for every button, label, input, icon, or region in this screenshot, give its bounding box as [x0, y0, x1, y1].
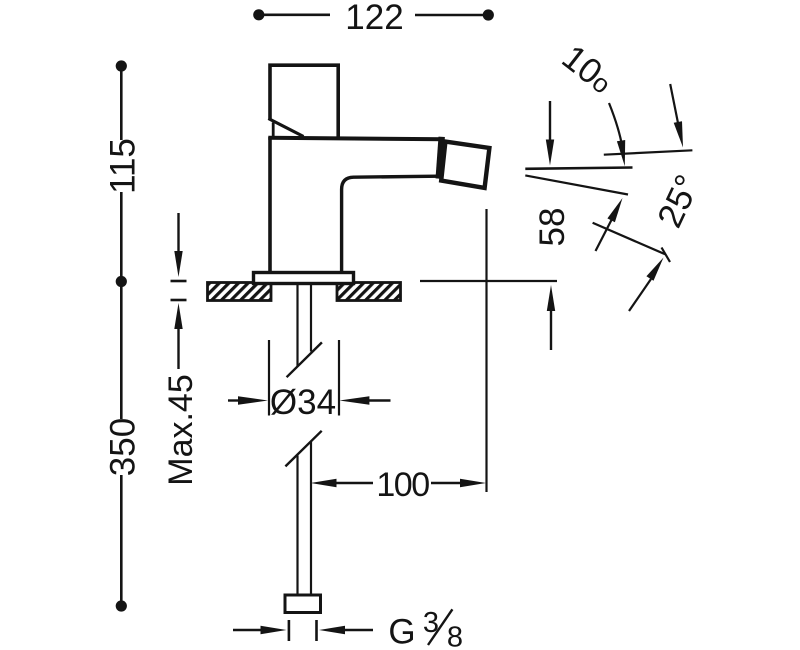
svg-text:25°: 25° — [650, 169, 708, 233]
dimension 58: top arrowhead — [546, 140, 554, 166]
dimension 122 top: right dot — [483, 9, 494, 20]
svg-text:10o: 10o — [555, 38, 621, 102]
extension line vertical at spout outlet — [485, 209, 487, 492]
supply pipe upper right line — [310, 284, 312, 352]
dimension D34: left line — [228, 399, 240, 401]
25 degree arrow F head — [646, 258, 663, 281]
dimension 58: bottom arrowhead — [547, 285, 555, 311]
dimension Max.45: bottom arrow line — [177, 328, 179, 369]
pipe break slash 2 — [285, 431, 321, 467]
dimension 115 top dot — [116, 60, 127, 71]
dimension D34: right arrowhead — [339, 396, 369, 404]
faucet body left edge — [268, 137, 272, 273]
dimension 58: top arrow line — [549, 101, 551, 142]
dimension 115/350 middle dot — [116, 276, 127, 287]
countertop hatch right block — [337, 283, 401, 301]
faucet base flange — [254, 273, 354, 284]
svg-text:58: 58 — [533, 208, 572, 247]
dimension 115/350 vertical line segment 1 — [120, 66, 123, 140]
25 degree arrow F line — [629, 279, 651, 311]
svg-text:350: 350 — [104, 418, 143, 476]
faucet handle square — [270, 65, 338, 137]
supply pipe upper left line — [296, 284, 298, 367]
arrow onto line C: arrowhead — [674, 121, 683, 147]
dimension G3/8: left line — [233, 629, 262, 631]
25 degree reference line D — [593, 223, 666, 255]
dimension 100: left line — [335, 482, 373, 484]
svg-text:Max.45: Max.45 — [162, 374, 200, 486]
arrow onto line C: line — [670, 84, 678, 123]
dimension G3/8: right tick — [315, 620, 318, 641]
pipe end connector box — [285, 595, 321, 613]
dimension Max.45: bottom tick — [171, 299, 187, 302]
svg-text:G: G — [388, 612, 415, 650]
dimension Max.45: top arrow line — [177, 213, 179, 252]
dimension 100: right arrowhead — [460, 479, 486, 487]
pipe break slash 1 — [287, 342, 322, 377]
line D end tick — [662, 248, 671, 263]
faucet spout end thick band — [439, 137, 442, 179]
faucet handle lever diagonal — [268, 119, 303, 137]
dimension Max.45: top arrowhead — [174, 251, 182, 277]
dimension G3/8: right line — [344, 629, 373, 631]
faucet aerator square — [441, 142, 489, 188]
dimension D34: right line — [368, 399, 391, 401]
dimension 100: left arrowhead — [311, 479, 337, 487]
dimension G3/8: right arrowhead — [319, 626, 345, 634]
faucet body top line — [268, 138, 444, 139]
25 degree arrow E head — [607, 198, 622, 222]
10 degree arc — [609, 103, 622, 147]
dimension 115/350 vertical line segment 3 — [120, 475, 123, 606]
spout level line A — [525, 168, 632, 169]
upper tilted line C — [604, 150, 693, 154]
supply pipe lower left line — [296, 456, 298, 596]
svg-text:115: 115 — [104, 138, 143, 194]
dimension D34: right extension line — [338, 340, 340, 416]
dimension 58: bottom arrow line — [550, 310, 552, 350]
dimension Max.45: bottom arrowhead — [174, 303, 182, 329]
25 degree arrow E line — [596, 217, 614, 251]
10 degree arc arrowhead — [617, 140, 625, 166]
svg-text:100: 100 — [376, 466, 429, 504]
spout tilted line B — [525, 175, 628, 194]
dimension 122 top: right line — [415, 14, 486, 17]
countertop hatch left block — [208, 283, 272, 301]
dimension 122 top: left dot — [253, 9, 264, 20]
svg-text:8: 8 — [447, 622, 463, 650]
supply pipe lower right line — [310, 442, 312, 596]
dimension G3/8: left arrowhead — [261, 626, 287, 634]
faucet body right edge with spout underside — [342, 176, 438, 272]
dimension 100: right line — [431, 482, 462, 484]
svg-text:Ø34: Ø34 — [270, 383, 336, 422]
dimension D34: left extension line — [268, 340, 270, 416]
svg-text:122: 122 — [345, 0, 403, 37]
dimension 115/350 vertical line segment 2 — [120, 192, 123, 419]
faucet handle notch vertical — [272, 123, 275, 138]
dimension G3/8: left tick — [288, 620, 291, 641]
dimension 122 top: left line — [262, 14, 330, 17]
dimension D34: left arrowhead — [238, 396, 268, 404]
extension line horizontal at counter level — [420, 280, 557, 282]
dimension 350 bottom dot — [116, 600, 127, 611]
fraction slash — [428, 609, 452, 645]
dimension Max.45: top tick — [171, 280, 187, 283]
